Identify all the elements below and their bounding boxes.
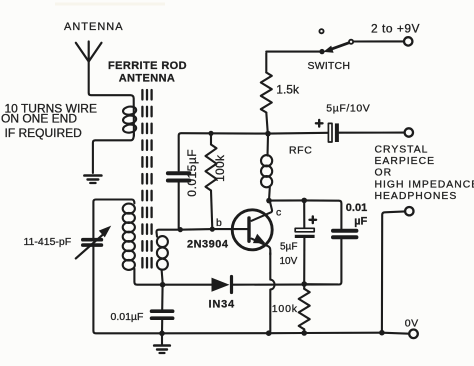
node detector junction xyxy=(160,282,166,288)
svg-text:IF REQUIRED: IF REQUIRED xyxy=(5,126,83,140)
variable capacitor C1 11-415pF xyxy=(76,226,111,259)
svg-text:100k: 100k xyxy=(213,154,227,182)
inductor RFC xyxy=(261,135,272,200)
wire main coil bottom xyxy=(134,269,162,285)
terminal earpiece top xyxy=(405,128,413,136)
switch S1 xyxy=(266,29,404,54)
svg-text:IN34: IN34 xyxy=(209,299,236,311)
node rail emitter xyxy=(266,330,272,336)
svg-text:µF: µF xyxy=(354,216,367,228)
node 5uF bottom / 100k top xyxy=(301,281,307,287)
node 1.5k / RFC / bus junction xyxy=(265,131,271,137)
svg-text:EARPIECE: EARPIECE xyxy=(375,156,436,167)
ground (antenna winding) xyxy=(84,176,101,184)
transistor Q1 2N3904 xyxy=(232,201,272,255)
svg-text:100k: 100k xyxy=(272,303,298,315)
inductor L2 main tuning winding xyxy=(123,204,135,270)
capacitor C6 0.01uF xyxy=(304,231,356,285)
wire left rail bottom xyxy=(93,247,162,333)
svg-text:11-415-pF: 11-415-pF xyxy=(24,236,72,248)
wire antenna to coupling coil xyxy=(89,59,134,136)
wire collector node to caps xyxy=(269,200,341,228)
terminal earpiece bottom xyxy=(405,207,413,215)
svg-text:ANTENNA: ANTENNA xyxy=(64,21,124,33)
terminal 0V xyxy=(409,330,418,339)
diode D1 IN34 xyxy=(163,277,338,293)
svg-text:c: c xyxy=(276,207,281,219)
svg-text:ON ONE END: ON ONE END xyxy=(1,112,77,126)
svg-text:HIGH IMPEDANCE: HIGH IMPEDANCE xyxy=(375,180,474,191)
wire left rail top to main coil xyxy=(93,200,134,239)
svg-text:0V: 0V xyxy=(405,317,419,329)
svg-text:0.01µF: 0.01µF xyxy=(111,311,144,323)
resistor R3 100k xyxy=(299,284,310,333)
wire emitter down with hop over detector line xyxy=(270,253,274,332)
inductor L3 secondary winding xyxy=(156,230,180,285)
capacitor C5 5uF 10V emitter bypass xyxy=(295,200,316,284)
wire earpiece return to 0V rail xyxy=(382,211,405,332)
svg-text:5µF/10V: 5µF/10V xyxy=(326,103,370,115)
node 5uF top xyxy=(301,198,307,204)
node collector junction xyxy=(266,198,272,204)
svg-text:0.01: 0.01 xyxy=(346,202,367,214)
resistor R2 1.5k xyxy=(261,53,272,133)
svg-text:b: b xyxy=(216,217,222,229)
wire 0V rail xyxy=(162,333,409,334)
svg-text:ANTENNA: ANTENNA xyxy=(119,72,176,84)
svg-text:2 to +9V: 2 to +9V xyxy=(371,22,420,36)
svg-text:SWITCH: SWITCH xyxy=(308,60,351,72)
ground (bottom) xyxy=(154,333,170,353)
node rail 100k xyxy=(301,330,307,336)
wire top horizontal bus xyxy=(179,133,269,171)
node rail earpiece xyxy=(379,330,385,336)
node base junction 100k xyxy=(210,227,215,232)
wire coupling coil to ground xyxy=(93,134,134,173)
ferrite rod xyxy=(142,90,151,268)
svg-text:0.015µF: 0.015µF xyxy=(185,149,199,197)
node 100k top xyxy=(208,131,213,136)
inductor L1 10-turn coupling winding xyxy=(123,106,137,134)
svg-text:RFC: RFC xyxy=(289,145,312,157)
capacitor C3 0.01uF AGC xyxy=(152,285,173,334)
wire base line xyxy=(180,228,249,231)
svg-text:OR: OR xyxy=(375,168,393,179)
svg-text:10V: 10V xyxy=(280,256,298,267)
node base junction 0.015uF xyxy=(178,227,183,232)
svg-text:CRYSTAL: CRYSTAL xyxy=(375,144,429,155)
svg-text:1.5k: 1.5k xyxy=(276,82,300,96)
node rail ground xyxy=(159,331,165,337)
capacitor C4 5uF/10V output coupling xyxy=(269,120,405,142)
svg-text:FERRITE ROD: FERRITE ROD xyxy=(108,60,187,72)
capacitor C2 0.015uF xyxy=(168,173,189,229)
resistor R1 100k xyxy=(206,133,217,229)
svg-text:5µF: 5µF xyxy=(280,242,297,253)
antenna xyxy=(76,42,102,62)
terminal +9V xyxy=(404,37,412,45)
svg-text:HEADPHONES: HEADPHONES xyxy=(375,191,458,202)
svg-text:2N3904: 2N3904 xyxy=(187,239,229,251)
